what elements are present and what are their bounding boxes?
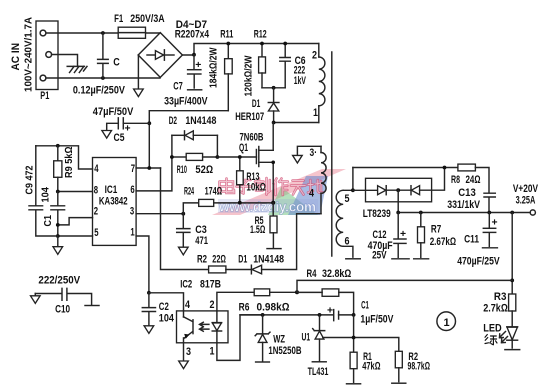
svg-text:R6: R6	[239, 301, 250, 313]
svg-text:120kΩ/2W: 120kΩ/2W	[244, 55, 255, 96]
ground (C10 left)	[31, 296, 41, 304]
svg-text:R2: R2	[197, 253, 207, 265]
svg-text:104: 104	[159, 313, 175, 325]
resistor R24	[183, 186, 273, 214]
ground bar (C10 right)	[85, 305, 99, 307]
svg-text:33µF/400V: 33µF/400V	[164, 95, 208, 107]
resistor R8	[451, 164, 489, 193]
svg-text:817B: 817B	[200, 278, 221, 290]
svg-text:R11: R11	[220, 28, 233, 40]
zener WZ 1N5250B	[255, 315, 301, 361]
svg-text:+: +	[400, 229, 406, 240]
node: bridge plus	[192, 53, 196, 57]
svg-text:Q1: Q1	[239, 142, 248, 154]
label V+20V 3.25A	[513, 183, 539, 207]
wire: pin 2 jog	[58, 218, 93, 225]
node: R10 left	[170, 155, 174, 159]
transistor Q1 7N60B	[239, 123, 273, 203]
svg-text:6: 6	[345, 236, 350, 248]
wire: pin 7 VCC	[136, 167, 160, 169]
svg-text:47µF/50V: 47µF/50V	[93, 106, 134, 118]
svg-text:4: 4	[185, 299, 191, 311]
svg-text:10kΩ: 10kΩ	[246, 181, 266, 193]
transformer feedback winding (pins 3-4)	[297, 146, 326, 213]
svg-text:D1: D1	[238, 253, 247, 265]
node: R10 right	[216, 155, 220, 159]
svg-text:www.dzdiy.com: www.dzdiy.com	[218, 200, 316, 215]
svg-text:C13: C13	[458, 187, 476, 199]
resistor R2 22ohm	[197, 253, 251, 273]
wire: IC2 pin 1 loop	[217, 315, 263, 361]
svg-text:R9 5kΩ: R9 5kΩ	[64, 146, 75, 178]
earth ground	[67, 66, 87, 72]
svg-text:R8: R8	[451, 174, 460, 186]
svg-text:C10: C10	[55, 304, 70, 316]
svg-text:F1: F1	[114, 13, 123, 25]
wire: output sense long	[297, 280, 512, 292]
svg-text:2.7kΩ: 2.7kΩ	[483, 303, 508, 315]
wire: output rail	[398, 190, 530, 212]
bridge rectifier D4~D7	[138, 19, 210, 78]
svg-text:D2: D2	[169, 115, 177, 127]
wire: gate drive	[217, 156, 256, 158]
svg-text:52Ω: 52Ω	[195, 164, 213, 176]
capacitor C11	[457, 213, 500, 268]
capacitor C5	[93, 106, 150, 144]
svg-text:D1: D1	[252, 98, 260, 110]
node: rail LED branch	[510, 211, 514, 215]
node: R13 bottom	[238, 201, 242, 205]
ground (feedback pin 3)	[293, 155, 303, 163]
svg-text:C5: C5	[114, 132, 125, 144]
wire: snubber bottom	[262, 87, 285, 89]
node: R12 top	[260, 42, 264, 46]
svg-text:IC2: IC2	[180, 278, 192, 290]
LED indicator	[483, 322, 517, 348]
svg-text:+: +	[492, 218, 498, 229]
capacitor C9	[25, 146, 58, 236]
svg-text:3: 3	[186, 346, 191, 358]
resistor R11	[209, 28, 234, 110]
svg-text:1.5Ω: 1.5Ω	[250, 224, 266, 236]
svg-text:1: 1	[130, 227, 134, 239]
wire: pin 4 feed	[36, 146, 93, 169]
svg-text:1: 1	[210, 345, 215, 357]
svg-text:1N4148: 1N4148	[253, 253, 284, 265]
resistor R3	[483, 291, 516, 327]
ground bar (secondary pin 6)	[346, 258, 360, 260]
ground (IC2 pin 3)	[179, 361, 189, 369]
diode D1 HER107	[235, 88, 279, 123]
svg-text:IC1: IC1	[105, 184, 118, 196]
svg-text:7: 7	[131, 163, 135, 175]
ground bar (R7)	[414, 258, 429, 260]
node: rail C12	[396, 211, 400, 215]
svg-text:C9 472: C9 472	[25, 165, 36, 194]
diode D2 1N4148	[169, 115, 218, 157]
svg-text:32.8kΩ: 32.8kΩ	[322, 268, 352, 280]
svg-text:V+20V: V+20V	[513, 183, 539, 195]
node: pin3 junction	[181, 212, 185, 216]
svg-text:174Ω: 174Ω	[205, 186, 223, 198]
svg-text:184kΩ/2W: 184kΩ/2W	[209, 47, 220, 88]
svg-text:98.7kΩ: 98.7kΩ	[408, 361, 431, 373]
svg-text:1µF/50V: 1µF/50V	[360, 313, 394, 325]
wire: VCC feed down to supply diode	[161, 168, 209, 270]
node: rail C11	[487, 211, 491, 215]
node: ref junction	[352, 336, 356, 340]
node: drain	[272, 121, 276, 125]
svg-text:LT8239: LT8239	[363, 208, 391, 220]
svg-text:25V: 25V	[372, 249, 387, 261]
svg-text:0.12µF/250V: 0.12µF/250V	[73, 84, 126, 96]
svg-text:P1: P1	[40, 90, 49, 102]
resistor R9	[54, 146, 75, 192]
transformer core	[331, 52, 333, 256]
node: R8 left	[443, 166, 447, 170]
svg-text:222/250V: 222/250V	[38, 274, 80, 286]
node: secondary pin 5	[351, 188, 355, 192]
svg-text:22Ω: 22Ω	[212, 253, 226, 265]
wire: pin5 to R8	[353, 167, 458, 169]
svg-text:471: 471	[195, 235, 208, 247]
op-amp U IC1 KA3842	[93, 158, 137, 246]
node: pin8 junction	[56, 190, 60, 194]
wire: pin 1 comp	[136, 236, 149, 293]
svg-text:24Ω: 24Ω	[466, 174, 481, 186]
svg-text:R2207x4: R2207x4	[175, 29, 210, 41]
svg-text:LED: LED	[483, 322, 502, 334]
svg-text:WZ: WZ	[273, 334, 285, 346]
svg-text:2.67kΩ: 2.67kΩ	[430, 236, 457, 248]
node: C1 bottom	[56, 223, 60, 227]
capacitor C (X-cap)	[98, 33, 120, 78]
ground (IC1 analog)	[53, 236, 63, 254]
svg-text:AC IN: AC IN	[10, 43, 22, 71]
svg-text:1N5250B: 1N5250B	[268, 345, 301, 357]
svg-text:U1: U1	[302, 331, 311, 343]
ground bar (LED)	[505, 349, 520, 351]
node: junction X	[295, 290, 299, 294]
ground bar (R5)	[267, 248, 281, 250]
svg-text:C1: C1	[361, 299, 369, 311]
svg-text:+: +	[195, 60, 201, 71]
capacitor C1 (1uF/50V)	[327, 299, 394, 325]
svg-text:R3: R3	[494, 291, 507, 303]
svg-text:R24: R24	[184, 186, 195, 198]
node: source corner	[271, 161, 275, 165]
svg-text:R7: R7	[431, 223, 441, 235]
svg-text:5: 5	[345, 193, 350, 205]
node: rectifier cathode	[396, 188, 400, 192]
svg-text:1N4148: 1N4148	[185, 115, 216, 127]
resistor R7	[418, 213, 457, 258]
ground (C2)	[144, 326, 154, 334]
fuse F1	[114, 13, 165, 38]
svg-text:C: C	[113, 56, 120, 68]
capacitor C12	[368, 213, 406, 262]
ground bar (C11)	[483, 247, 498, 249]
svg-text:250V/3A: 250V/3A	[130, 13, 164, 25]
svg-text:+: +	[327, 306, 333, 317]
node: C1 right / R4	[352, 313, 356, 317]
node: U1 top	[318, 313, 322, 317]
svg-text:1: 1	[313, 107, 318, 119]
ground bar (C7)	[188, 89, 202, 91]
svg-text:KA3842: KA3842	[99, 195, 128, 207]
svg-text:R4: R4	[307, 268, 318, 280]
svg-text:3.25A: 3.25A	[516, 194, 536, 206]
capacitor C3	[177, 214, 208, 247]
svg-text:4: 4	[94, 163, 99, 175]
svg-text:R10: R10	[177, 164, 187, 176]
svg-text:+: +	[125, 124, 131, 135]
svg-text:2: 2	[94, 205, 98, 217]
node: R9 top	[56, 144, 60, 148]
wire: pin 5	[58, 235, 93, 237]
svg-text:3: 3	[130, 205, 134, 217]
node: WZ top	[261, 313, 265, 317]
svg-text:TL431: TL431	[308, 366, 329, 378]
capacitor C1 (104)	[41, 187, 65, 236]
ground (C5)	[102, 131, 112, 139]
ground (bridge minus)	[134, 89, 144, 97]
node: source sense	[271, 201, 275, 205]
svg-text:C1: C1	[43, 215, 54, 227]
shunt regulator U1 TL431	[302, 315, 399, 378]
svg-text:8: 8	[94, 184, 98, 196]
capacitor C13	[447, 187, 495, 212]
svg-text:1: 1	[444, 317, 450, 329]
ground (C3)	[179, 247, 189, 255]
wire: AC line bottom	[46, 77, 160, 79]
node: rail R7	[419, 211, 423, 215]
output terminal	[530, 210, 535, 215]
ground bar (U1)	[312, 361, 326, 363]
wire: pin 6 drive	[136, 157, 172, 191]
node: snubber to D1	[272, 86, 276, 90]
svg-text:C11: C11	[464, 234, 479, 246]
wire: pin 8	[58, 191, 93, 193]
transformer T1 primary winding (pins 2-1)	[312, 44, 325, 123]
svg-text:100V~240V/1.7A: 100V~240V/1.7A	[24, 17, 35, 92]
node: comp node	[147, 291, 151, 295]
svg-text:C2: C2	[159, 301, 169, 313]
svg-text:C7: C7	[173, 80, 183, 92]
svg-text:0.98kΩ: 0.98kΩ	[257, 301, 290, 313]
wire: comp node to IC2 pin 4	[149, 293, 184, 311]
wire: pin 3 sense	[136, 213, 183, 215]
node marker circled 1	[437, 312, 456, 331]
svg-text:4: 4	[309, 187, 315, 199]
node: bottom junction	[101, 76, 105, 80]
resistor R6	[239, 289, 297, 313]
capacitor C7	[164, 55, 208, 108]
wire: bridge plus to rail	[182, 44, 318, 56]
node: C6 top	[283, 42, 287, 46]
ground bar (C12)	[392, 258, 409, 260]
svg-text:2: 2	[312, 49, 317, 61]
svg-text:1kV: 1kV	[294, 75, 307, 87]
transformer secondary winding (pins 5-6)	[336, 168, 353, 258]
wire: bridge minus to ground	[137, 55, 139, 89]
watermark band	[212, 169, 346, 215]
wire: startup to VCC	[149, 111, 228, 168]
capacitor C6	[280, 44, 307, 88]
wire: AC line top	[46, 32, 160, 34]
ground bar (R2)	[392, 382, 406, 384]
svg-text:HER107: HER107	[235, 111, 264, 123]
capacitor C10 (line filter, standalone)	[35, 274, 91, 315]
resistor R10	[172, 153, 218, 175]
node: C5 tap	[147, 121, 151, 125]
wire: middle terminal to earth	[52, 55, 78, 67]
resistor R5	[250, 203, 277, 248]
wire: IC2 pin 3 to ground	[183, 343, 185, 361]
rectifier LT8239	[353, 168, 445, 221]
connector P1	[36, 21, 58, 102]
wire: IC2 pin 2 up	[217, 292, 254, 311]
svg-text:R12: R12	[254, 29, 267, 41]
node: gate / R13	[238, 155, 242, 159]
node: VCC junction	[147, 166, 151, 170]
resistor R12	[244, 29, 267, 97]
svg-text:5: 5	[94, 227, 98, 239]
ground bar (R1)	[347, 383, 361, 385]
wire: cathode node	[240, 314, 333, 316]
resistor R13	[237, 157, 267, 203]
svg-text:47kΩ: 47kΩ	[362, 361, 381, 373]
capacitor C2	[142, 293, 174, 326]
node: pin5 junction	[56, 234, 60, 238]
node: sense tap	[510, 279, 514, 283]
svg-text:331/1kV: 331/1kV	[447, 199, 480, 211]
node: R11 top	[226, 42, 230, 46]
optocoupler IC2 817B	[177, 278, 229, 357]
svg-text:6: 6	[130, 184, 134, 196]
diode D1 1N4148 (supply)	[238, 214, 321, 274]
svg-text:104: 104	[41, 187, 52, 203]
node: top junction	[101, 31, 105, 35]
wire: LED branch	[511, 213, 513, 295]
resistor R1	[350, 351, 381, 382]
svg-text:470µF/25V: 470µF/25V	[457, 255, 500, 267]
resistor R2 98.7k	[395, 351, 430, 382]
wire: drain node to transformer pin1	[274, 122, 319, 124]
ground bar (WZ)	[256, 361, 270, 363]
resistor R4	[297, 268, 354, 315]
svg-text:2: 2	[210, 299, 215, 311]
svg-text:3·: 3·	[310, 147, 318, 159]
wire: ref node vertical	[353, 315, 355, 352]
